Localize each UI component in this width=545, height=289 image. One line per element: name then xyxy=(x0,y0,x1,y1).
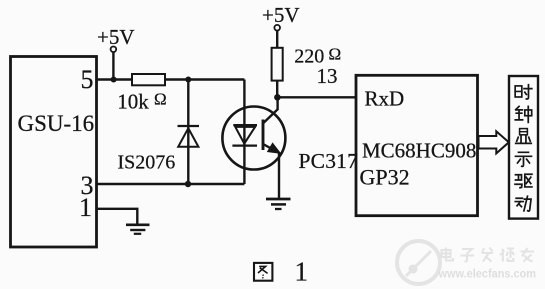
svg-text:RxD: RxD xyxy=(365,87,405,111)
char 示 xyxy=(515,152,531,166)
phototransistor emitter xyxy=(263,144,279,199)
char 驱 xyxy=(515,174,532,187)
svg-text:Ω: Ω xyxy=(329,45,342,64)
junction dot node diode bottom xyxy=(185,181,191,187)
display driver box xyxy=(509,76,538,219)
svg-text:PC317: PC317 xyxy=(299,149,359,173)
wire resistor to LED column xyxy=(165,78,244,80)
wire pin1 from GSU-16 xyxy=(97,209,138,225)
wire resistor 220 to node 13 xyxy=(276,81,278,98)
wire node 13 to RxD xyxy=(277,96,356,98)
wire +5V to resistor 220 xyxy=(276,31,278,48)
wire pin3 net xyxy=(97,183,245,185)
power +5V terminal (top middle) xyxy=(274,25,280,31)
svg-text:MC68HC908: MC68HC908 xyxy=(362,139,476,163)
junction dot node pin5/+5V xyxy=(111,77,117,83)
svg-text:GP32: GP32 xyxy=(360,165,410,190)
svg-text:5: 5 xyxy=(81,65,94,94)
ground (pin1) xyxy=(126,224,150,227)
ground (under optocoupler) xyxy=(266,198,291,201)
diode D1 IS2076 (wire) xyxy=(187,80,189,185)
char 动 xyxy=(515,196,531,211)
block arrow to display driver xyxy=(479,131,509,153)
svg-text:10k: 10k xyxy=(117,90,149,114)
resistor 10k xyxy=(132,74,165,85)
wire LED vertical xyxy=(243,80,245,185)
optocoupler LED cathode bar xyxy=(232,144,257,146)
svg-text:IS2076: IS2076 xyxy=(118,152,176,174)
junction dot node 13 xyxy=(274,94,281,101)
wire +5V down to pin5 net xyxy=(112,52,114,79)
wire pin5 from GSU-16 to resistor xyxy=(97,78,133,80)
watermark logo circle xyxy=(397,241,440,284)
svg-text:www.elecfans.com: www.elecfans.com xyxy=(438,267,536,281)
phototransistor collector xyxy=(263,97,278,123)
power +5V terminal (left) xyxy=(111,47,117,53)
char 时 xyxy=(515,85,532,99)
display driver vertical text 时钟显示驱动 xyxy=(515,85,532,211)
diode D1 IS2076 cathode bar xyxy=(178,125,200,127)
resistor 220 xyxy=(272,48,283,81)
char 钟 xyxy=(515,106,531,122)
char 显 xyxy=(516,129,532,144)
svg-text:+5V: +5V xyxy=(97,25,135,49)
svg-text:13: 13 xyxy=(317,64,338,88)
svg-text:GSU-16: GSU-16 xyxy=(18,111,95,136)
optocoupler U2 PC317 circle xyxy=(222,107,285,170)
svg-text:1: 1 xyxy=(79,193,92,222)
optocoupler LED triangle xyxy=(235,127,255,144)
svg-text:+5V: +5V xyxy=(262,3,300,27)
caption 图 xyxy=(254,263,272,281)
IC U1 GSU-16 box xyxy=(11,57,97,248)
svg-text:1: 1 xyxy=(295,257,309,287)
watermark text 电子发烧友 xyxy=(442,248,535,262)
diode D1 IS2076 triangle xyxy=(178,128,198,147)
junction dot node diode top xyxy=(185,77,191,83)
optocoupler LED anode bar xyxy=(233,124,257,126)
phototransistor base bar xyxy=(262,120,265,151)
phototransistor emitter arrowhead xyxy=(268,143,281,153)
IC U3 MC68HC908 box xyxy=(356,75,478,215)
svg-text:Ω: Ω xyxy=(154,90,167,109)
